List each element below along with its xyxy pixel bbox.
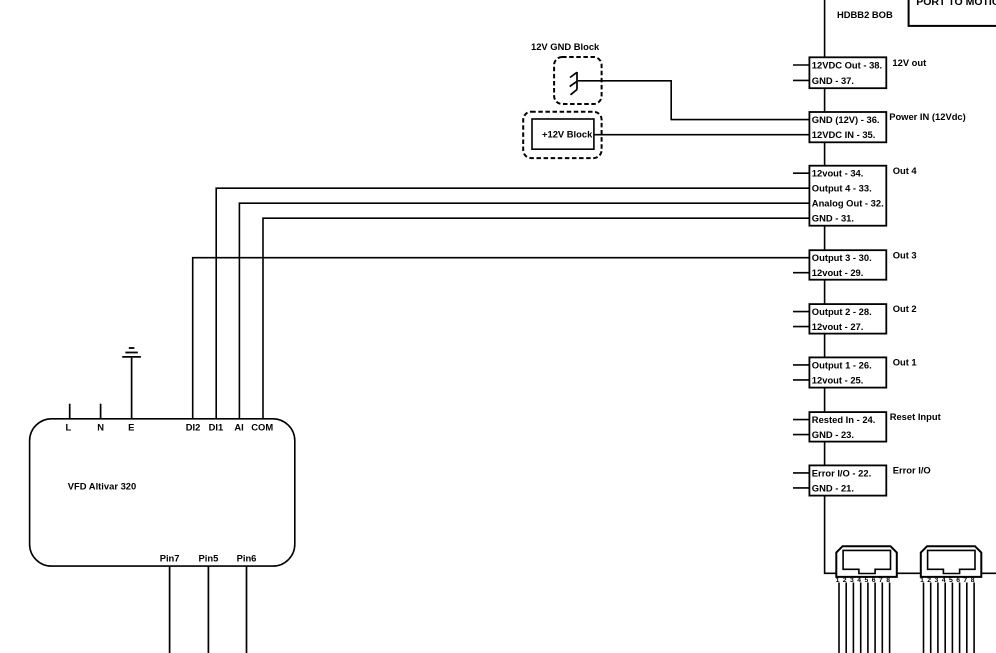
- svg-text:12VDC IN - 35.: 12VDC IN - 35.: [812, 129, 876, 140]
- connector J1 body: [836, 546, 897, 577]
- svg-text:Output 4 - 33.: Output 4 - 33.: [812, 183, 872, 194]
- svg-text:Output 1 - 26.: Output 1 - 26.: [812, 359, 872, 370]
- +12V Block inner box: [532, 119, 594, 149]
- VFD bottom wire Pin6: [246, 566, 248, 653]
- svg-text:+12V Block: +12V Block: [542, 129, 593, 140]
- wire row33 Output4-33 to VFD DI1: [216, 188, 809, 419]
- connector J2 body: [921, 546, 982, 577]
- svg-text:GND - 31.: GND - 31.: [812, 213, 854, 224]
- svg-text:Rested In - 24.: Rested In - 24.: [812, 414, 876, 425]
- VFD pin wire E with earth ground: [131, 358, 133, 419]
- terminal box Power IN (36/35): [809, 112, 886, 142]
- wire row35 from +12V block to 12VDC IN - 35: [594, 134, 810, 136]
- svg-text:Pin6: Pin6: [237, 553, 257, 564]
- dashed box +12V Block: [523, 112, 601, 158]
- terminal box Out4 (34/33/32/31): [809, 166, 886, 226]
- svg-text:GND - 37.: GND - 37.: [812, 75, 854, 86]
- terminal box Out3 (30/29): [809, 250, 886, 280]
- svg-text:12vout - 27.: 12vout - 27.: [812, 321, 864, 332]
- terminal stubs left of HDBB2 boxes: [793, 65, 809, 488]
- svg-text:Out 4: Out 4: [893, 165, 918, 176]
- connector J2 wires: [924, 583, 975, 653]
- svg-text:Out 3: Out 3: [893, 250, 917, 261]
- VFD bottom wire Pin5: [207, 566, 209, 653]
- svg-text:GND - 21.: GND - 21.: [812, 482, 854, 493]
- PORT TO MOTION box (cut off top-right): [909, 0, 996, 26]
- svg-text:AI: AI: [234, 422, 243, 433]
- svg-text:PORT TO MOTION: PORT TO MOTION: [916, 0, 996, 8]
- svg-text:12vout - 29.: 12vout - 29.: [812, 267, 864, 278]
- wire row30 Output3-30 to VFD DI2: [193, 258, 810, 419]
- svg-text:Analog Out - 32.: Analog Out - 32.: [812, 198, 884, 209]
- VFD bottom wire Pin7: [169, 566, 171, 653]
- VFD pin stub L: [69, 404, 71, 419]
- svg-text:Out 1: Out 1: [893, 357, 917, 368]
- connector J1 pin numbers: [836, 577, 891, 584]
- terminal box Error (22/21): [809, 465, 886, 495]
- connector J1 wires: [839, 583, 890, 653]
- svg-text:E: E: [128, 422, 134, 433]
- svg-text:N: N: [97, 422, 104, 433]
- terminal box Out1 (26/25): [809, 357, 886, 387]
- svg-text:Pin5: Pin5: [198, 553, 218, 564]
- wire row31 GND-31 to VFD COM: [263, 218, 809, 419]
- connector J2 pin numbers: [920, 577, 975, 584]
- svg-text:12VDC Out - 38.: 12VDC Out - 38.: [812, 60, 882, 71]
- svg-text:Pin7: Pin7: [160, 553, 180, 564]
- terminal box Out2 (28/27): [809, 304, 886, 334]
- dashed box 12V GND Block: [554, 57, 602, 104]
- svg-text:12vout - 34.: 12vout - 34.: [812, 168, 864, 179]
- svg-text:12V GND Block: 12V GND Block: [531, 41, 600, 52]
- terminal box Reset (24/23): [809, 412, 886, 442]
- svg-text:L: L: [66, 422, 72, 433]
- svg-text:Power IN (12Vdc): Power IN (12Vdc): [889, 111, 966, 122]
- svg-text:DI1: DI1: [209, 422, 224, 433]
- chassis ground symbol: [570, 72, 578, 95]
- svg-text:GND (12V) - 36.: GND (12V) - 36.: [812, 114, 880, 125]
- svg-text:VFD Altivar 320: VFD Altivar 320: [68, 481, 136, 492]
- svg-text:COM: COM: [251, 422, 273, 433]
- earth ground symbol (inverted): [122, 348, 141, 357]
- svg-text:Error I/O - 22.: Error I/O - 22.: [812, 467, 871, 478]
- svg-text:GND - 23.: GND - 23.: [812, 429, 854, 440]
- board spine wire (HDBB2 left edge): [825, 0, 996, 573]
- svg-text:Output 3 - 30.: Output 3 - 30.: [812, 252, 872, 263]
- svg-text:HDBB2 BOB: HDBB2 BOB: [837, 9, 893, 20]
- svg-text:Reset Input: Reset Input: [890, 411, 941, 422]
- svg-text:12vout - 25.: 12vout - 25.: [812, 374, 864, 385]
- svg-text:Out 2: Out 2: [893, 303, 917, 314]
- svg-text:Error I/O: Error I/O: [893, 465, 931, 476]
- wire row32 Analog Out-32 to VFD AI: [239, 203, 809, 419]
- wire row36 from 12V GND block to GND (12V) - 36: [578, 81, 809, 120]
- VFD Altivar 320 box: [30, 419, 295, 566]
- VFD pin stub N: [100, 404, 102, 419]
- terminal box 12V out (38/37): [809, 57, 886, 88]
- svg-text:DI2: DI2: [186, 422, 201, 433]
- svg-text:Output 2 - 28.: Output 2 - 28.: [812, 306, 872, 317]
- svg-text:12V out: 12V out: [892, 57, 926, 68]
